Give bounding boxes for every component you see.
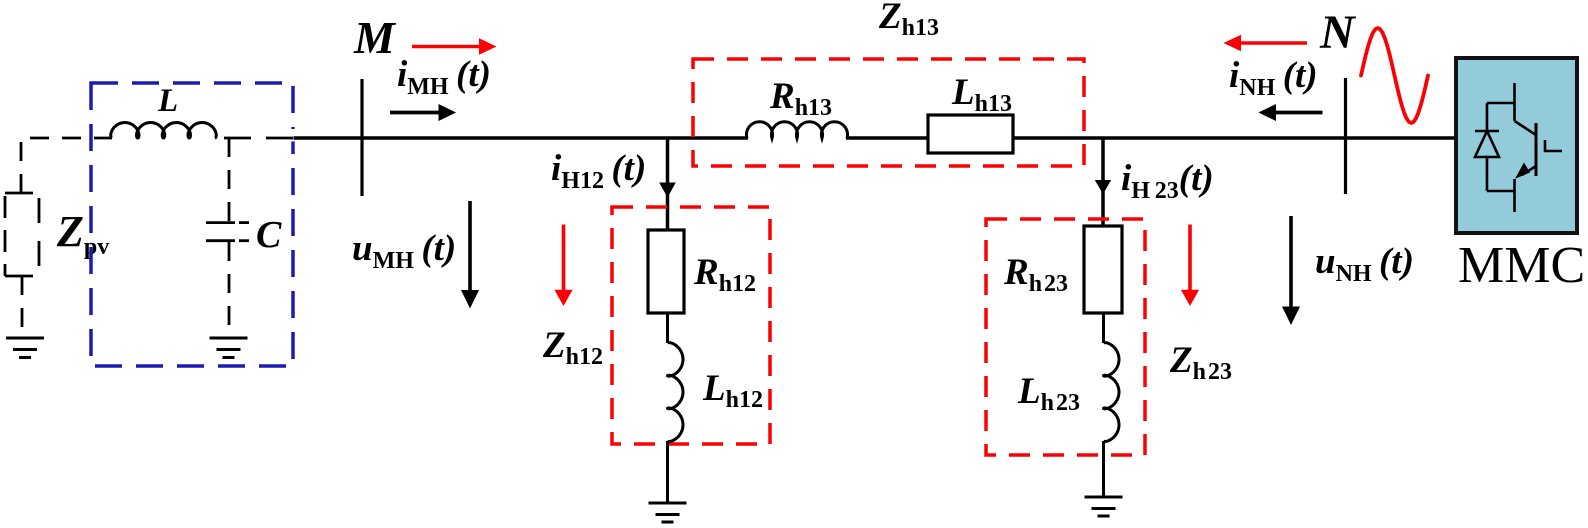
svg-text:C: C xyxy=(256,214,282,256)
IGBT gate lead (L shape) xyxy=(1545,140,1562,151)
resistor Rh23 (rectangle) xyxy=(1084,226,1122,313)
MMC internal: top horizontal xyxy=(1487,102,1515,105)
wire Rh23 to Lh23 xyxy=(1102,313,1105,343)
IGBT emitter diagonal with arrow xyxy=(1515,163,1536,179)
diode D (anti-parallel) xyxy=(1475,131,1499,157)
IGBT collector diagonal xyxy=(1515,121,1537,135)
MMC internal: bottom lead xyxy=(1513,191,1516,212)
wire C branch lower (dashed) xyxy=(228,242,231,334)
IGBT emitter lead xyxy=(1513,179,1516,191)
arrow red iMH direction xyxy=(412,38,497,55)
arrow black uNH down xyxy=(1282,216,1300,325)
red dashed box Zh12 xyxy=(612,207,770,444)
AC source sine symbol (red) xyxy=(1361,28,1428,123)
MMC internal: top lead xyxy=(1513,83,1516,121)
MMC internal: left branch wire xyxy=(1486,103,1489,191)
node junction 1 wire down to Zh12 xyxy=(666,138,670,231)
arrowhead iH23 on wire xyxy=(1095,180,1111,194)
arrow red Zh23 down xyxy=(1181,225,1199,307)
wire Lh12 to ground xyxy=(666,441,669,503)
ground (Zh23) xyxy=(1085,497,1123,516)
ground (C) xyxy=(210,338,248,358)
bus bar M xyxy=(360,79,363,196)
resistor Rh12 (rectangle) xyxy=(648,230,684,313)
impedance Zpv (dashed rectangle) xyxy=(5,193,39,276)
bus bar N xyxy=(1344,78,1347,194)
inductor Lh12 (vertical coil) xyxy=(668,343,684,442)
wire Lh23 to ground xyxy=(1102,441,1105,497)
arrow red iNH direction (left) xyxy=(1224,35,1308,52)
red dashed box Zh23 xyxy=(986,219,1145,455)
transistor Q (IGBT) bar xyxy=(1535,123,1538,176)
ground (Zpv) xyxy=(6,338,44,358)
inductor L (coil) xyxy=(111,123,216,139)
blue dashed box (LC filter) xyxy=(91,83,293,366)
inductor Lh13 (rectangle) xyxy=(928,115,1013,153)
ground (Zh12) xyxy=(649,503,687,522)
wire dashed from Zpv to L (top-left) xyxy=(21,138,112,193)
MMC converter block xyxy=(1456,58,1577,233)
svg-text:MMC: MMC xyxy=(1458,237,1585,294)
wire from L to main bus (dashed) xyxy=(224,137,294,140)
arrowhead iH12 on wire xyxy=(659,183,676,198)
wire Rh12 to Lh12 xyxy=(666,313,669,343)
arrow black uMH down xyxy=(461,201,479,309)
arrow black iNH (left) xyxy=(1259,104,1323,121)
svg-text:L: L xyxy=(157,83,178,119)
svg-text:M: M xyxy=(353,12,397,63)
capacitor C plates xyxy=(206,223,249,241)
MMC internal: bottom horizontal xyxy=(1487,190,1515,193)
red dashed box Zh13 xyxy=(693,59,1084,166)
inductor Lh23 (vertical coil) xyxy=(1104,343,1120,442)
svg-text:N: N xyxy=(1319,6,1357,59)
arrow black iMH xyxy=(390,104,456,121)
resistor Rh13 (coil symbol) xyxy=(747,122,848,139)
arrow red Zh12 down xyxy=(554,225,572,307)
node junction 2 wire down to Zh23 xyxy=(1101,138,1105,227)
wire Zpv to ground (dashed) xyxy=(21,276,24,334)
wire main bus M to MMC xyxy=(294,136,749,140)
wire C branch upper (dashed) xyxy=(228,138,231,221)
